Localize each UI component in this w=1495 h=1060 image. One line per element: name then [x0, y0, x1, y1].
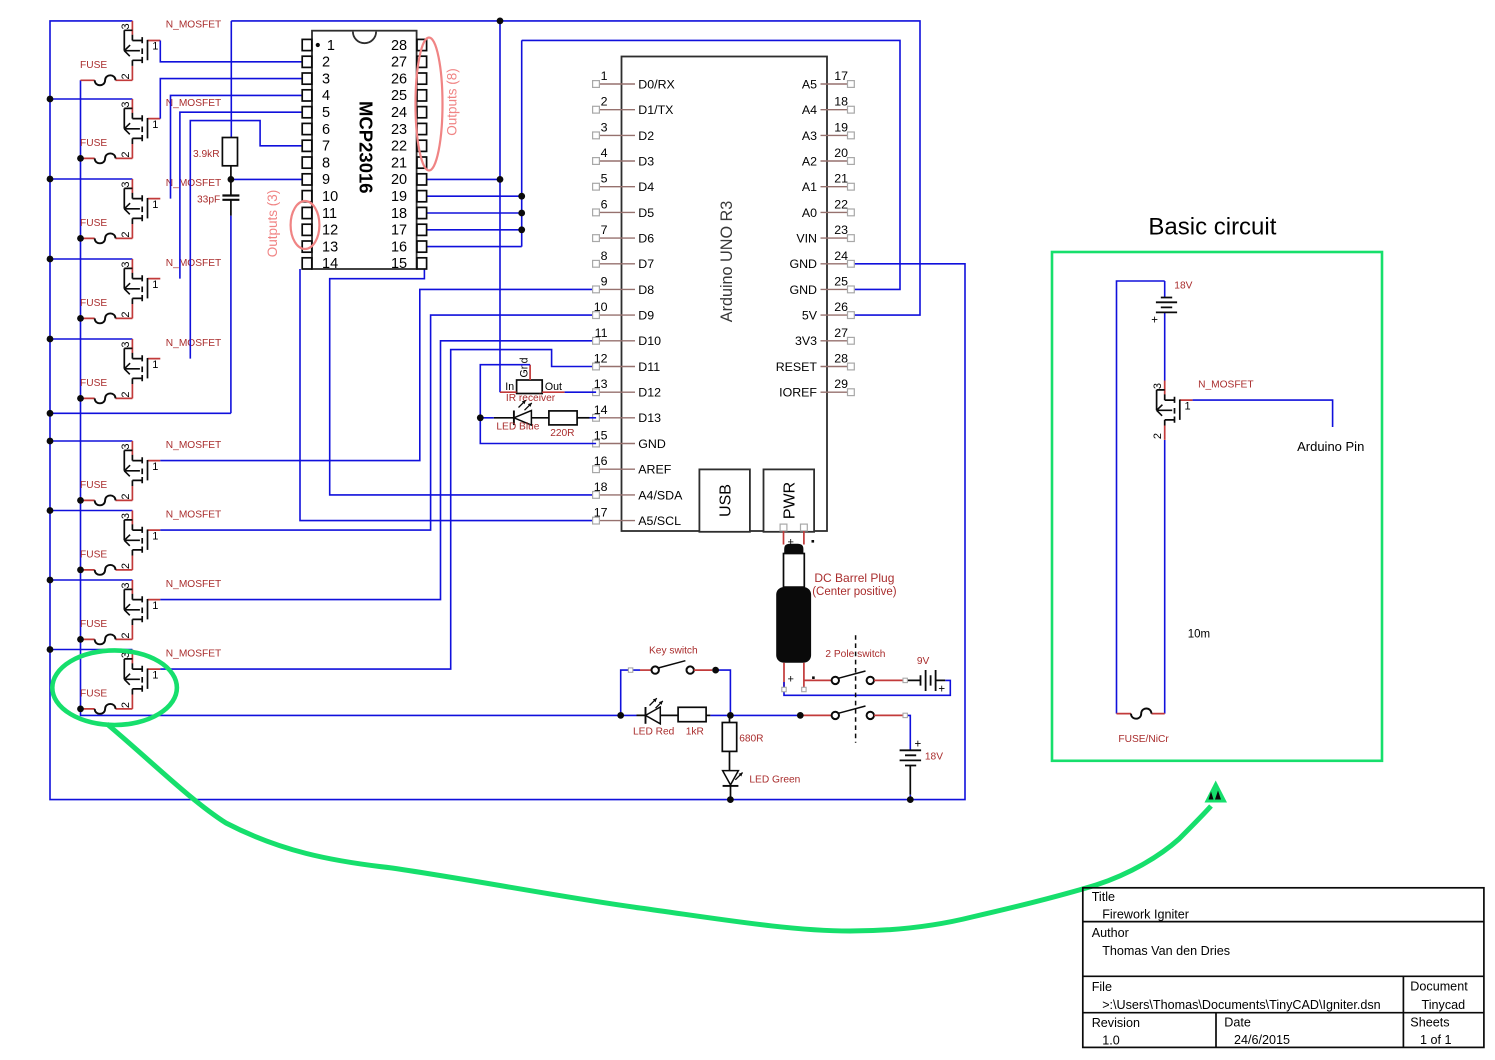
wire: basic circuit loop — [1117, 281, 1165, 714]
svg-text:18: 18 — [391, 206, 407, 222]
svg-text:AREF: AREF — [638, 463, 671, 477]
transistor Q10 N_MOSFET (basic circuit) — [1152, 379, 1253, 440]
wire: basic MOSFET gate to Arduino pin stub — [1193, 400, 1333, 427]
LED Green — [723, 771, 739, 785]
svg-text:A2: A2 — [802, 154, 817, 168]
svg-text:LED Blue: LED Blue — [496, 422, 539, 433]
wire: left supply rail, bottom rail and GND riser to Arduino pin 24 — [50, 21, 965, 800]
Arduino pin 10 D9 — [598, 314, 635, 316]
MCP pin 12 — [302, 224, 312, 235]
svg-text:17: 17 — [391, 223, 407, 239]
svg-text:Arduino Pin: Arduino Pin — [1297, 439, 1364, 454]
battery 9V — [905, 679, 945, 681]
svg-text:13: 13 — [594, 377, 608, 391]
svg-text:DC Barrel Plug: DC Barrel Plug — [814, 571, 894, 585]
svg-text:16: 16 — [391, 239, 407, 255]
Arduino pin 12 D11 — [598, 366, 635, 368]
svg-text:Title: Title — [1092, 890, 1115, 904]
svg-text:27: 27 — [834, 326, 848, 340]
svg-text:D9: D9 — [638, 309, 654, 323]
svg-text:29: 29 — [834, 377, 848, 391]
MCP pin 22 — [417, 140, 427, 151]
MCP pin 6 — [302, 123, 312, 134]
svg-text:4: 4 — [322, 88, 330, 104]
svg-text:7: 7 — [601, 223, 608, 237]
svg-text:D6: D6 — [638, 232, 654, 246]
Arduino pin 1 D0/RX — [598, 83, 635, 85]
fuse F1 — [80, 60, 132, 85]
svg-text:22: 22 — [834, 197, 848, 211]
Arduino pin 19 A3 — [821, 134, 851, 136]
MCP pin 16 — [417, 241, 427, 252]
svg-text:20: 20 — [391, 172, 407, 188]
svg-text:FUSE/NiCr: FUSE/NiCr — [1118, 734, 1169, 745]
switch S2a 2 Pole switch upper — [832, 671, 874, 684]
Arduino pin 5 D4 — [598, 186, 635, 188]
wire: +5V net (top line, MCP pin 20, IR receiver In, Arduino 5V pin 26) — [231, 21, 920, 392]
svg-text:27: 27 — [391, 55, 407, 71]
svg-text:12: 12 — [322, 223, 338, 239]
svg-text:15: 15 — [391, 256, 407, 272]
MCP pin 13 — [302, 241, 312, 252]
wire: IR receiver Gnd / LED cathode to Arduino GND pin 15 — [480, 365, 596, 444]
svg-text:6: 6 — [322, 122, 330, 138]
svg-text:Date: Date — [1224, 1016, 1251, 1030]
svg-text:USB: USB — [718, 484, 735, 517]
svg-text:Out: Out — [545, 381, 562, 393]
PWR connector box — [764, 469, 815, 531]
wire: Q6 gate to Arduino D8 — [160, 289, 596, 460]
svg-text:D13: D13 — [638, 411, 661, 425]
wire: fuse chain rail to firing line — [81, 80, 637, 715]
fuse F2 — [80, 138, 132, 163]
resistor 220R — [549, 411, 577, 425]
node: green highlight ellipse around last channel — [52, 650, 177, 725]
wire: Q2 gate to MCP pin 3 — [160, 79, 302, 119]
svg-text:GND: GND — [789, 283, 817, 297]
PWR pins pads — [780, 524, 787, 531]
svg-text:In: In — [505, 381, 514, 393]
Arduino pin 7 D6 — [598, 237, 635, 239]
svg-text:Firework Igniter: Firework Igniter — [1102, 908, 1189, 922]
MCP pin 25 — [417, 90, 427, 101]
MCP pin 8 — [302, 157, 312, 168]
svg-text:D7: D7 — [638, 257, 654, 271]
wire: firing line to key switch — [621, 670, 640, 715]
svg-text:IOREF: IOREF — [779, 386, 817, 400]
svg-text:220R: 220R — [550, 428, 574, 439]
wire: 33pF to ground rail — [230, 216, 232, 413]
svg-text:RESET: RESET — [776, 360, 818, 374]
svg-text:20: 20 — [834, 146, 848, 160]
svg-text:3: 3 — [601, 120, 608, 134]
Arduino pin 20 A2 — [821, 160, 851, 162]
fuse F8 — [80, 619, 132, 644]
MCP pin 21 — [417, 157, 427, 168]
wire: Q5 gate to MCP pin 7 — [190, 121, 302, 359]
svg-text:22: 22 — [391, 139, 407, 155]
resistor 680R — [729, 715, 731, 722]
MCP pin 3 — [302, 73, 312, 84]
svg-text:1.0: 1.0 — [1102, 1034, 1120, 1048]
op-amp U2 Arduino UNO R3 body — [622, 57, 828, 532]
svg-text:Revision: Revision — [1092, 1016, 1140, 1030]
svg-text:Basic circuit: Basic circuit — [1148, 214, 1276, 241]
svg-text:14: 14 — [322, 256, 338, 272]
Arduino pin 15 GND — [598, 443, 635, 445]
MCP pin 7 — [302, 140, 312, 151]
op-amp U1 MCP23016 I/O expander body — [312, 31, 417, 269]
svg-text:D11: D11 — [638, 360, 660, 374]
battery 18V (basic circuit) — [1161, 298, 1172, 308]
transistor Q1 N_MOSFET — [120, 20, 221, 81]
svg-text:25: 25 — [834, 274, 848, 288]
fuse F6 — [80, 480, 132, 505]
svg-text:A4: A4 — [802, 103, 817, 117]
svg-text:D12: D12 — [638, 386, 661, 400]
MCP pin 17 — [417, 224, 427, 235]
svg-text:A5: A5 — [802, 77, 817, 91]
battery 18V — [900, 750, 922, 760]
resistor 1kR — [678, 707, 706, 721]
svg-text:1kR: 1kR — [686, 727, 704, 738]
svg-text:D10: D10 — [638, 334, 661, 348]
svg-text:A5/SCL: A5/SCL — [638, 514, 681, 528]
transistor Q3 N_MOSFET — [120, 178, 221, 239]
svg-text:+: + — [1151, 314, 1158, 326]
Arduino pin 8 D7 — [598, 263, 635, 265]
Arduino pin 21 A1 — [821, 186, 851, 188]
svg-text:D3: D3 — [638, 154, 654, 168]
svg-text:8: 8 — [322, 155, 330, 171]
MCP pin 15 — [417, 258, 427, 269]
svg-text:D4: D4 — [638, 180, 654, 194]
Arduino pin 18 A4/SDA — [598, 494, 635, 496]
svg-text:19: 19 — [391, 189, 407, 205]
svg-text:Sheets: Sheets — [1410, 1016, 1449, 1030]
svg-text:11: 11 — [322, 206, 337, 222]
svg-text:IR receiver: IR receiver — [506, 393, 556, 404]
Arduino pin 26 5V — [821, 314, 851, 316]
svg-text:+: + — [788, 673, 794, 685]
wire: MCP pin 14 to Arduino A5/SCL — [300, 269, 596, 521]
MCP pin 23 — [417, 123, 427, 134]
svg-text:GND: GND — [638, 437, 666, 451]
transistor Q8 N_MOSFET — [120, 579, 221, 640]
svg-text:Outputs (8): Outputs (8) — [445, 68, 460, 136]
wire: IR receiver Out to Arduino D12 — [565, 391, 597, 393]
svg-text:Thomas Van den Dries: Thomas Van den Dries — [1102, 944, 1230, 958]
fuse F7 — [80, 550, 132, 575]
svg-text:D1/TX: D1/TX — [638, 103, 673, 117]
svg-text:Arduino UNO R3: Arduino UNO R3 — [718, 201, 736, 322]
wire: Q9 gate to Arduino D11 — [160, 350, 596, 669]
junction dots — [47, 96, 54, 103]
svg-text:18: 18 — [594, 480, 608, 494]
Arduino pin 25 GND — [821, 288, 851, 290]
svg-text:A3: A3 — [802, 129, 817, 143]
svg-text:26: 26 — [391, 71, 407, 87]
transistor Q5 N_MOSFET — [120, 338, 221, 399]
svg-text:+: + — [788, 537, 794, 549]
Arduino pin 29 IOREF — [821, 391, 851, 393]
capacitor 33pF — [230, 179, 232, 215]
MCP pin 20 — [417, 174, 427, 185]
svg-text:5: 5 — [322, 105, 330, 121]
wire: Q7 gate to Arduino D9 — [160, 315, 596, 530]
svg-text:10: 10 — [322, 189, 338, 205]
MCP pin 11 — [302, 207, 312, 218]
svg-text:Gnd: Gnd — [519, 357, 531, 377]
MCP pin 27 — [417, 56, 427, 67]
node: 2-pole switch gang dashed link — [855, 635, 857, 743]
svg-text:15: 15 — [594, 429, 608, 443]
wire: MCP pin 15 to Arduino A4/SDA — [330, 269, 596, 495]
node: Basic circuit green frame — [1052, 252, 1382, 761]
svg-text:2: 2 — [601, 95, 608, 109]
svg-text:24/6/2015: 24/6/2015 — [1234, 1033, 1290, 1047]
svg-text:5V: 5V — [802, 309, 818, 323]
Arduino pin 16 AREF — [598, 468, 635, 470]
MCP pin 9 — [302, 174, 312, 185]
node: Outputs (8) highlight ellipse — [416, 38, 443, 171]
svg-text:+: + — [938, 684, 945, 696]
svg-text:28: 28 — [391, 38, 407, 54]
Arduino pin 11 D10 — [598, 340, 635, 342]
svg-text:LED Red: LED Red — [633, 727, 675, 738]
svg-text:19: 19 — [834, 120, 848, 134]
node: green annotation arrow curve — [107, 724, 1211, 931]
Arduino pin 22 A0 — [821, 211, 851, 213]
svg-text:33pF: 33pF — [197, 195, 220, 206]
svg-text:+: + — [915, 738, 922, 750]
svg-text:Outputs (3): Outputs (3) — [265, 190, 280, 258]
svg-text:Tinycad: Tinycad — [1422, 998, 1466, 1012]
MCP pin 10 — [302, 191, 312, 202]
svg-text:18V: 18V — [925, 752, 943, 763]
svg-text:18: 18 — [834, 95, 848, 109]
Arduino pin 4 D3 — [598, 160, 635, 162]
wire: LED red node to 2-pole switch — [710, 714, 800, 716]
Arduino pin 14 D13 — [598, 417, 635, 419]
Arduino pin 24 GND — [821, 263, 851, 265]
MCP pin 2 — [302, 56, 312, 67]
svg-text:23: 23 — [391, 122, 407, 138]
MCP pin 19 — [417, 191, 427, 202]
MCP pin 26 — [417, 73, 427, 84]
svg-text:Document: Document — [1410, 980, 1468, 994]
svg-text:D2: D2 — [638, 129, 654, 143]
svg-text:Author: Author — [1092, 926, 1129, 940]
svg-text:A0: A0 — [802, 206, 817, 220]
Arduino pin 6 D5 — [598, 211, 635, 213]
MCP pin 1 — [302, 39, 312, 50]
svg-text:21: 21 — [834, 172, 848, 186]
svg-text:>:\Users\Thomas\Documents\Tiny: >:\Users\Thomas\Documents\TinyCAD\Ignite… — [1102, 998, 1380, 1012]
MCP pin 4 — [302, 90, 312, 101]
svg-text:12: 12 — [594, 352, 608, 366]
svg-text:9: 9 — [601, 274, 608, 288]
svg-text:MCP23016: MCP23016 — [355, 101, 376, 194]
svg-text:A1: A1 — [802, 180, 817, 194]
fuse F3 — [80, 218, 132, 243]
svg-text:(Center positive): (Center positive) — [812, 586, 897, 598]
Arduino pin 17 A5/SCL — [598, 520, 635, 522]
IR receiver — [517, 380, 543, 394]
svg-text:6: 6 — [601, 197, 608, 211]
MCP pin 5 — [302, 107, 312, 118]
transistor Q7 N_MOSFET — [120, 509, 221, 570]
svg-text:25: 25 — [391, 88, 407, 104]
svg-text:5: 5 — [601, 172, 608, 186]
svg-text:Key switch: Key switch — [649, 646, 698, 657]
svg-text:680R: 680R — [739, 734, 763, 745]
svg-text:28: 28 — [834, 352, 848, 366]
svg-text:1 of 1: 1 of 1 — [1420, 1033, 1452, 1047]
svg-text:File: File — [1092, 980, 1112, 994]
svg-text:3.9kR: 3.9kR — [193, 149, 220, 160]
svg-text:21: 21 — [391, 155, 407, 171]
svg-text:D5: D5 — [638, 206, 654, 220]
LED Blue — [494, 417, 549, 419]
wire: Q8 gate to Arduino D10 — [160, 341, 596, 600]
svg-text:GND: GND — [789, 257, 817, 271]
svg-text:LED Green: LED Green — [749, 775, 800, 786]
wire: GND net (MCP pins 16-19 to Arduino GND pin 25) — [417, 40, 900, 289]
Arduino pin 27 3V3 — [821, 340, 851, 342]
wire: Q1 gate to MCP pin 2 — [160, 41, 302, 62]
wire: key switch to LED red output node — [716, 670, 731, 715]
svg-text:17: 17 — [834, 69, 848, 83]
svg-text:14: 14 — [594, 403, 608, 417]
fuse F4 — [80, 298, 132, 323]
Arduino pin 13 D12 — [598, 391, 635, 393]
LED Red — [637, 714, 679, 716]
svg-text:D0/RX: D0/RX — [638, 77, 675, 91]
svg-text:13: 13 — [322, 239, 338, 255]
MCP pin 24 — [417, 107, 427, 118]
Arduino pin 18 A4 — [821, 109, 851, 111]
node: Outputs (3) highlight ellipse — [291, 201, 320, 249]
transistor Q9 N_MOSFET — [120, 648, 221, 709]
svg-text:7: 7 — [322, 139, 330, 155]
svg-text:10m: 10m — [1188, 629, 1210, 641]
transistor Q2 N_MOSFET — [120, 98, 221, 159]
svg-text:26: 26 — [834, 300, 848, 314]
Arduino pin 23 VIN — [821, 237, 851, 239]
Arduino pin 2 D1/TX — [598, 109, 635, 111]
svg-text:1: 1 — [601, 69, 608, 83]
open wire end pads — [903, 678, 907, 682]
Arduino pin 3 D2 — [598, 134, 635, 136]
fuse F9 — [80, 689, 132, 714]
svg-text:D8: D8 — [638, 283, 654, 297]
svg-text:17: 17 — [594, 506, 608, 520]
MCP pin 28 — [417, 39, 427, 50]
svg-text:4: 4 — [601, 146, 608, 160]
transistor Q4 N_MOSFET — [120, 258, 221, 319]
switch S2b 2 Pole switch lower — [800, 714, 831, 716]
svg-text:16: 16 — [594, 454, 608, 468]
svg-text:11: 11 — [595, 326, 608, 340]
MCP pin 18 — [417, 207, 427, 218]
DC Barrel Plug — [784, 531, 804, 545]
svg-text:PWR: PWR — [782, 482, 799, 519]
wire: Q4 gate to MCP pin 5 — [180, 112, 302, 278]
svg-text:18V: 18V — [1174, 281, 1192, 292]
svg-text:3V3: 3V3 — [795, 334, 817, 348]
USB connector box — [699, 469, 750, 531]
wire: plug negative return loop to 9V battery — [784, 680, 950, 695]
svg-text:24: 24 — [391, 105, 407, 121]
svg-text:10: 10 — [594, 300, 608, 314]
svg-text:9V: 9V — [917, 656, 930, 667]
resistor 3.9kR — [222, 138, 237, 166]
switch S1 Key switch — [652, 661, 694, 674]
svg-text:3: 3 — [322, 71, 330, 87]
transistor Q6 N_MOSFET — [120, 440, 221, 501]
Arduino pin 17 A5 — [821, 83, 851, 85]
svg-text:1: 1 — [327, 38, 335, 54]
wire: Q3 gate to MCP pin 4 — [171, 95, 303, 198]
svg-text:24: 24 — [834, 249, 848, 263]
node: title block table — [1083, 888, 1484, 1048]
svg-text:8: 8 — [601, 249, 608, 263]
svg-text:A4/SDA: A4/SDA — [638, 488, 683, 502]
svg-text:23: 23 — [834, 223, 848, 237]
Arduino pin 9 D8 — [598, 288, 635, 290]
Arduino pin 28 RESET — [821, 366, 851, 368]
wire: switch to 18V battery — [905, 715, 910, 750]
svg-text:9: 9 — [322, 172, 330, 188]
MCP pin 14 — [302, 258, 312, 269]
fuse F5 — [80, 378, 132, 403]
svg-text:2: 2 — [322, 55, 330, 71]
wire: 220R to Arduino D13 — [590, 417, 597, 419]
wire: 18V battery to bottom rail — [909, 795, 911, 800]
svg-text:VIN: VIN — [796, 232, 817, 246]
fuse FUSE/NiCr (basic circuit) — [1117, 713, 1165, 715]
